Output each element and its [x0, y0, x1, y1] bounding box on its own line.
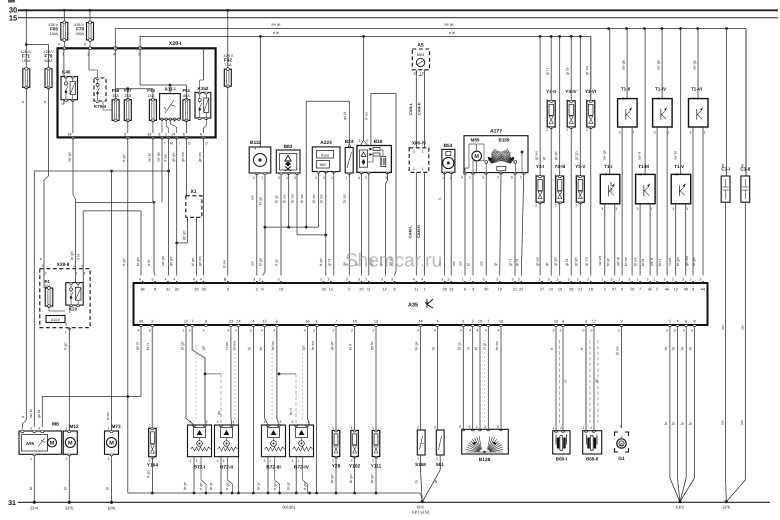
- svg-text:rt bl: rt bl: [273, 31, 279, 35]
- svg-text:F4: F4: [45, 279, 51, 284]
- svg-text:2: 2: [182, 329, 184, 333]
- svg-text:2: 2: [372, 329, 374, 333]
- svg-text:2: 2: [566, 128, 568, 132]
- svg-text:2: 2: [256, 287, 258, 291]
- svg-text:4: 4: [137, 329, 139, 333]
- svg-text:3: 3: [381, 278, 383, 282]
- bus 31 ground rail: [8, 500, 770, 507]
- svg-text:14: 14: [352, 320, 356, 324]
- svg-text:br gn: br gn: [136, 257, 140, 266]
- svg-text:rt ws: rt ws: [365, 112, 369, 120]
- svg-text:Y3-V: Y3-V: [575, 164, 586, 169]
- svg-text:bl: bl: [467, 263, 471, 266]
- svg-text:4: 4: [358, 176, 360, 180]
- sensor B54: [442, 143, 455, 180]
- svg-text:EP4: EP4: [31, 506, 39, 511]
- svg-text:A11-II: A11-II: [51, 318, 60, 322]
- svg-text:gn: gn: [217, 411, 221, 415]
- wire A177-6 to A35: [509, 173, 516, 276]
- svg-text:Shemcar.ru: Shemcar.ru: [345, 251, 442, 272]
- svg-text:2: 2: [604, 287, 606, 291]
- svg-text:2: 2: [417, 426, 419, 430]
- wire B30-3 to A35: [379, 172, 388, 275]
- svg-text:13: 13: [374, 320, 378, 324]
- svg-text:6: 6: [685, 320, 687, 324]
- svg-text:1: 1: [331, 176, 333, 180]
- page corner mark: [8, 0, 15, 3]
- svg-text:3: 3: [277, 278, 279, 282]
- svg-text:2: 2: [332, 459, 334, 463]
- svg-text:5: 5: [482, 176, 484, 180]
- svg-text:6: 6: [511, 176, 513, 180]
- svg-text:4: 4: [273, 329, 275, 333]
- svg-text:gr ge: gr ge: [554, 257, 558, 266]
- bus rt bl injectors: [140, 31, 591, 101]
- wire M89-4 to A35: [459, 173, 465, 276]
- wire A224-3 to A35: [319, 172, 326, 276]
- svg-text:ws: ws: [480, 261, 484, 266]
- wires A35 to B138 knock: [458, 327, 502, 430]
- svg-text:I: I: [164, 142, 165, 146]
- svg-text:3: 3: [647, 278, 649, 282]
- svg-text:br rt: br rt: [146, 342, 150, 350]
- svg-text:3: 3: [497, 425, 499, 429]
- svg-text:5: 5: [276, 320, 278, 324]
- fuse F42: [223, 9, 233, 282]
- svg-text:1: 1: [332, 426, 334, 430]
- svg-text:3: 3: [629, 278, 631, 282]
- svg-text:M: M: [68, 441, 73, 447]
- svg-text:2: 2: [413, 167, 415, 171]
- svg-text:3: 3: [217, 420, 219, 424]
- svg-text:2: 2: [590, 426, 592, 430]
- wires A35 to EP3 ground: [664, 327, 694, 502]
- throttle unit A177: [464, 129, 528, 173]
- lambda sensor B72-IV: [290, 420, 314, 471]
- svg-text:3: 3: [672, 207, 674, 211]
- svg-text:A5: A5: [417, 43, 424, 49]
- svg-text:sw ws: sw ws: [598, 256, 602, 266]
- ground EP3: [676, 500, 684, 509]
- wire B83-2 to A35: [275, 173, 281, 276]
- svg-text:1: 1: [422, 150, 424, 154]
- svg-text:gn ws: gn ws: [198, 152, 202, 162]
- svg-text:M: M: [474, 154, 479, 160]
- svg-text:150A: 150A: [50, 32, 59, 36]
- svg-text:1: 1: [461, 278, 463, 282]
- svg-text:gr ge: gr ge: [330, 341, 334, 350]
- svg-text:1: 1: [704, 131, 706, 135]
- svg-text:sw: sw: [720, 420, 724, 425]
- svg-text:5: 5: [224, 278, 226, 282]
- svg-text:br bl: br bl: [641, 258, 645, 266]
- svg-text:50: 50: [630, 287, 634, 291]
- svg-text:2: 2: [556, 278, 558, 282]
- svg-text:vi ws: vi ws: [225, 341, 229, 350]
- valve Y102: [349, 426, 361, 493]
- svg-text:sw bl: sw bl: [674, 151, 678, 160]
- svg-text:ge: ge: [302, 346, 306, 350]
- svg-text:36: 36: [140, 287, 144, 291]
- svg-text:M: M: [170, 142, 173, 146]
- A35 top pin row: [139, 278, 705, 292]
- svg-text:39: 39: [139, 320, 143, 324]
- svg-text:3: 3: [548, 278, 550, 282]
- svg-text:8: 8: [693, 320, 695, 324]
- svg-text:7: 7: [487, 320, 489, 324]
- svg-text:sw gn: sw gn: [603, 150, 607, 160]
- svg-text:gr rt: gr rt: [509, 258, 513, 266]
- svg-text:X28-I: X28-I: [169, 41, 182, 47]
- svg-text:bl ws: bl ws: [320, 194, 324, 203]
- svg-text:14: 14: [67, 132, 71, 136]
- svg-text:3: 3: [483, 278, 485, 282]
- svg-text:T1-V: T1-V: [674, 164, 685, 169]
- svg-text:ge ws: ge ws: [685, 256, 689, 266]
- svg-text:4: 4: [469, 329, 471, 333]
- svg-text:3: 3: [42, 264, 44, 268]
- svg-text:sw ge: sw ge: [68, 152, 72, 162]
- ground EP6 right: [723, 500, 731, 509]
- svg-text:CAN-L: CAN-L: [408, 102, 413, 115]
- svg-text:ws: ws: [459, 261, 463, 266]
- svg-text:gr bl: gr bl: [515, 258, 519, 266]
- svg-text:21: 21: [578, 287, 582, 291]
- svg-text:1: 1: [436, 457, 438, 461]
- svg-text:6: 6: [183, 132, 185, 136]
- svg-text:gr gn: gr gn: [574, 257, 578, 266]
- relay K46: [61, 48, 78, 133]
- wire B132-1 lineC: [259, 173, 265, 276]
- sensor module A224: [312, 140, 340, 180]
- svg-text:3: 3: [552, 329, 554, 333]
- svg-text:3: 3: [472, 287, 474, 291]
- svg-text:rt ge: rt ge: [319, 258, 323, 266]
- svg-text:4: 4: [139, 278, 141, 282]
- svg-text:4: 4: [308, 420, 310, 424]
- svg-text:20: 20: [484, 287, 488, 291]
- svg-text:1: 1: [30, 457, 32, 461]
- svg-text:gr gn: gr gn: [575, 151, 579, 160]
- svg-text:1: 1: [262, 176, 264, 180]
- svg-text:EP1-ul.hd.: EP1-ul.hd.: [412, 511, 430, 515]
- svg-text:B54: B54: [444, 143, 453, 149]
- svg-text:1: 1: [637, 278, 639, 282]
- svg-text:4: 4: [252, 320, 254, 324]
- svg-text:vi: vi: [564, 380, 568, 383]
- svg-text:gn bl: gn bl: [37, 410, 41, 418]
- svg-text:13: 13: [449, 287, 453, 291]
- svg-text:br rt: br rt: [658, 258, 662, 266]
- svg-text:sw ge: sw ge: [657, 60, 661, 70]
- svg-text:4: 4: [264, 420, 266, 424]
- sensor B30: [357, 36, 392, 180]
- svg-text:4: 4: [38, 427, 40, 431]
- svg-text:5: 5: [472, 320, 474, 324]
- svg-text:2: 2: [434, 426, 436, 430]
- svg-text:M63: M63: [417, 53, 424, 57]
- svg-text:K46: K46: [62, 70, 71, 75]
- svg-text:B85: B85: [320, 163, 326, 167]
- svg-text:rt gn: rt gn: [64, 342, 68, 350]
- svg-text:br ge: br ge: [692, 257, 696, 266]
- svg-text:1: 1: [615, 207, 617, 211]
- svg-text:bl ge: bl ge: [191, 258, 195, 266]
- svg-text:br gr: br gr: [606, 257, 610, 266]
- svg-text:45: 45: [648, 287, 652, 291]
- sensor B24: [345, 139, 354, 180]
- svg-text:3: 3: [559, 329, 561, 333]
- svg-text:4: 4: [113, 53, 115, 57]
- svg-text:gr bl: gr bl: [327, 258, 331, 266]
- svg-text:2: 2: [149, 459, 151, 463]
- svg-text:19: 19: [558, 287, 562, 291]
- svg-text:sw gr: sw gr: [616, 256, 620, 266]
- svg-text:br rt: br rt: [289, 407, 293, 415]
- wire X28-I 9 rt gn: [122, 137, 129, 493]
- svg-text:31: 31: [166, 287, 170, 291]
- svg-text:4: 4: [164, 278, 166, 282]
- svg-text:2: 2: [108, 457, 110, 461]
- svg-text:17: 17: [592, 320, 596, 324]
- svg-text:B169: B169: [499, 138, 510, 143]
- svg-text:15: 15: [262, 320, 266, 324]
- svg-text:3: 3: [497, 176, 499, 180]
- svg-text:1: 1: [654, 278, 656, 282]
- svg-text:br ge: br ge: [415, 341, 419, 350]
- svg-text:sw bl: sw bl: [148, 153, 152, 162]
- wire A177-2 to A35: [515, 173, 524, 276]
- svg-text:3: 3: [538, 278, 540, 282]
- svg-text:1: 1: [316, 320, 318, 324]
- svg-text:2: 2: [217, 459, 219, 463]
- wire X28-I internal feed: [115, 48, 186, 99]
- sensor B132: [249, 36, 271, 180]
- svg-text:X80-IV: X80-IV: [412, 141, 427, 146]
- speed sensor B69-I: [553, 426, 570, 462]
- svg-text:11: 11: [367, 287, 371, 291]
- svg-text:28: 28: [569, 287, 573, 291]
- svg-text:rt gn: rt gn: [303, 482, 307, 490]
- svg-text:M: M: [50, 441, 55, 447]
- svg-text:2: 2: [560, 426, 562, 430]
- svg-text:br gr: br gr: [287, 481, 291, 490]
- svg-text:3: 3: [654, 131, 656, 135]
- svg-text:4: 4: [460, 329, 462, 333]
- sensor B83: [276, 144, 300, 180]
- wire X28-I 14b to A35: [169, 137, 178, 275]
- svg-text:1: 1: [668, 131, 670, 135]
- svg-text:rt bl: rt bl: [147, 260, 151, 266]
- svg-text:X1: X1: [190, 189, 196, 195]
- fuse F43: [147, 88, 156, 133]
- svg-text:6: 6: [205, 320, 207, 324]
- svg-text:6: 6: [200, 132, 202, 136]
- svg-text:5: 5: [669, 320, 671, 324]
- svg-text:23: 23: [229, 320, 233, 324]
- svg-text:rt ws: rt ws: [163, 154, 167, 162]
- svg-text:3: 3: [189, 329, 191, 333]
- svg-text:bl: bl: [474, 347, 478, 350]
- svg-text:br gr: br gr: [256, 481, 260, 490]
- svg-text:B72-I: B72-I: [194, 465, 206, 471]
- svg-text:gr rt: gr rt: [546, 67, 550, 75]
- wire X28-I 14 to X28-II: [68, 137, 76, 268]
- svg-text:2: 2: [351, 459, 353, 463]
- motor M73: [105, 424, 121, 461]
- svg-text:2: 2: [332, 329, 334, 333]
- svg-text:4: 4: [193, 278, 195, 282]
- svg-text:3: 3: [664, 278, 666, 282]
- svg-text:2: 2: [315, 176, 317, 180]
- relay K79-II: [89, 48, 112, 110]
- svg-text:49: 49: [684, 287, 688, 291]
- svg-text:5: 5: [691, 329, 693, 333]
- wire ignition feed jog: [29, 170, 170, 427]
- svg-text:2: 2: [151, 320, 153, 324]
- svg-text:15A: 15A: [112, 94, 119, 98]
- svg-text:2: 2: [235, 329, 237, 333]
- svg-text:gn ge: gn ge: [169, 256, 173, 266]
- svg-text:200A: 200A: [76, 32, 85, 36]
- wires B72 grounds: [183, 457, 308, 493]
- svg-text:1: 1: [149, 424, 151, 428]
- svg-text:rt gn: rt gn: [199, 482, 203, 490]
- svg-text:4: 4: [190, 420, 192, 424]
- svg-text:1: 1: [223, 459, 225, 463]
- svg-text:13: 13: [147, 132, 151, 136]
- svg-text:M: M: [109, 441, 114, 447]
- wire A35-2 to Y104: [146, 327, 153, 429]
- svg-text:ws: ws: [250, 261, 254, 266]
- wire X28-II pin4 jog: [77, 211, 142, 276]
- svg-text:9: 9: [261, 287, 263, 291]
- wires C3 to EP6 ground: [720, 420, 745, 502]
- svg-text:1: 1: [423, 287, 425, 291]
- svg-text:rt gn: rt gn: [122, 154, 126, 162]
- relay box X28-I: [58, 41, 216, 137]
- svg-text:rt ws: rt ws: [106, 412, 110, 420]
- svg-text:2: 2: [413, 150, 415, 154]
- connector X1: [181, 137, 202, 222]
- svg-text:A224: A224: [320, 140, 332, 146]
- fuse box X28-II: [40, 262, 90, 328]
- svg-text:1: 1: [372, 426, 374, 430]
- svg-text:EP3: EP3: [676, 505, 684, 510]
- wire X28-I 1 to A35: [161, 137, 169, 275]
- bus 30 rail: [9, 6, 778, 15]
- svg-text:5: 5: [365, 176, 367, 180]
- svg-text:br gn: br gn: [70, 251, 74, 260]
- relay K152: [195, 48, 211, 133]
- ignition coils T1 group: [600, 29, 708, 276]
- svg-text:sw: sw: [721, 325, 725, 330]
- svg-text:gn ws: gn ws: [181, 152, 185, 162]
- wire B54-2 to A35: [451, 172, 456, 275]
- position sensor B169: [485, 149, 524, 173]
- svg-text:bl rt: bl rt: [349, 343, 353, 350]
- sheet number: [282, 505, 296, 510]
- svg-text:2: 2: [45, 272, 47, 276]
- capacitor C3-II: [740, 29, 750, 481]
- capacitor C3-I: [721, 29, 730, 481]
- wire CAM twisted pair: [408, 172, 425, 275]
- svg-text:6: 6: [462, 320, 464, 324]
- svg-text:1: 1: [601, 278, 603, 282]
- svg-text:B69-I: B69-I: [556, 457, 567, 462]
- svg-text:ge: ge: [595, 379, 599, 383]
- svg-text:3: 3: [259, 278, 261, 282]
- svg-text:19: 19: [478, 320, 482, 324]
- generator G1: [615, 425, 629, 462]
- svg-text:br gr: br gr: [183, 481, 187, 490]
- svg-text:1: 1: [66, 427, 68, 431]
- svg-text:1: 1: [346, 176, 348, 180]
- svg-text:5: 5: [656, 287, 658, 291]
- svg-text:X28-II: X28-II: [57, 262, 70, 268]
- svg-text:B83: B83: [284, 144, 293, 150]
- svg-text:CAN-H: CAN-H: [416, 102, 421, 115]
- svg-text:br ws: br ws: [624, 257, 628, 266]
- wire B83-1 lineC: [282, 173, 288, 227]
- wire F71 to A95: [21, 88, 26, 428]
- svg-text:br gr: br gr: [275, 194, 279, 203]
- svg-text:2: 2: [621, 435, 623, 439]
- svg-text:4: 4: [676, 320, 678, 324]
- svg-text:1: 1: [351, 426, 353, 430]
- svg-text:K152: K152: [198, 86, 209, 91]
- svg-text:0: 0: [582, 329, 584, 333]
- svg-text:F42: F42: [224, 58, 232, 63]
- svg-text:1: 1: [476, 425, 478, 429]
- svg-text:2: 2: [190, 459, 192, 463]
- svg-text:9: 9: [620, 320, 622, 324]
- svg-text:4: 4: [233, 420, 235, 424]
- svg-text:3: 3: [292, 420, 294, 424]
- svg-text:9: 9: [621, 287, 623, 291]
- wires A35 to B72-I: [181, 327, 222, 425]
- svg-text:16: 16: [305, 320, 309, 324]
- svg-text:19: 19: [498, 287, 502, 291]
- svg-text:rt gr: rt gr: [275, 259, 279, 266]
- svg-text:A95: A95: [26, 441, 35, 446]
- svg-text:3: 3: [391, 278, 393, 282]
- control unit A5: [412, 43, 429, 76]
- svg-text:br gr: br gr: [458, 341, 462, 350]
- svg-text:gr bl: gr bl: [566, 67, 570, 75]
- node lineC sensors 5V: [264, 173, 319, 229]
- svg-text:rt bl: rt bl: [449, 31, 455, 35]
- svg-text:3: 3: [682, 278, 684, 282]
- svg-text:3: 3: [585, 320, 587, 324]
- svg-text:8: 8: [393, 287, 395, 291]
- motor M12: [63, 424, 79, 461]
- svg-text:F78: F78: [76, 27, 84, 32]
- svg-text:18: 18: [499, 320, 503, 324]
- wires A35 to B72-IV: [302, 327, 317, 493]
- svg-text:4: 4: [484, 425, 486, 429]
- svg-text:2: 2: [66, 457, 68, 461]
- svg-text:5: 5: [151, 278, 153, 282]
- svg-text:13: 13: [420, 72, 424, 76]
- wire X28-I 13: [148, 137, 153, 202]
- svg-text:1: 1: [686, 207, 688, 211]
- svg-text:4: 4: [421, 278, 423, 282]
- svg-text:4: 4: [84, 272, 86, 276]
- svg-text:I: I: [179, 142, 180, 146]
- svg-text:vi ws: vi ws: [668, 257, 672, 266]
- wire B30-5 to A35: [369, 173, 374, 276]
